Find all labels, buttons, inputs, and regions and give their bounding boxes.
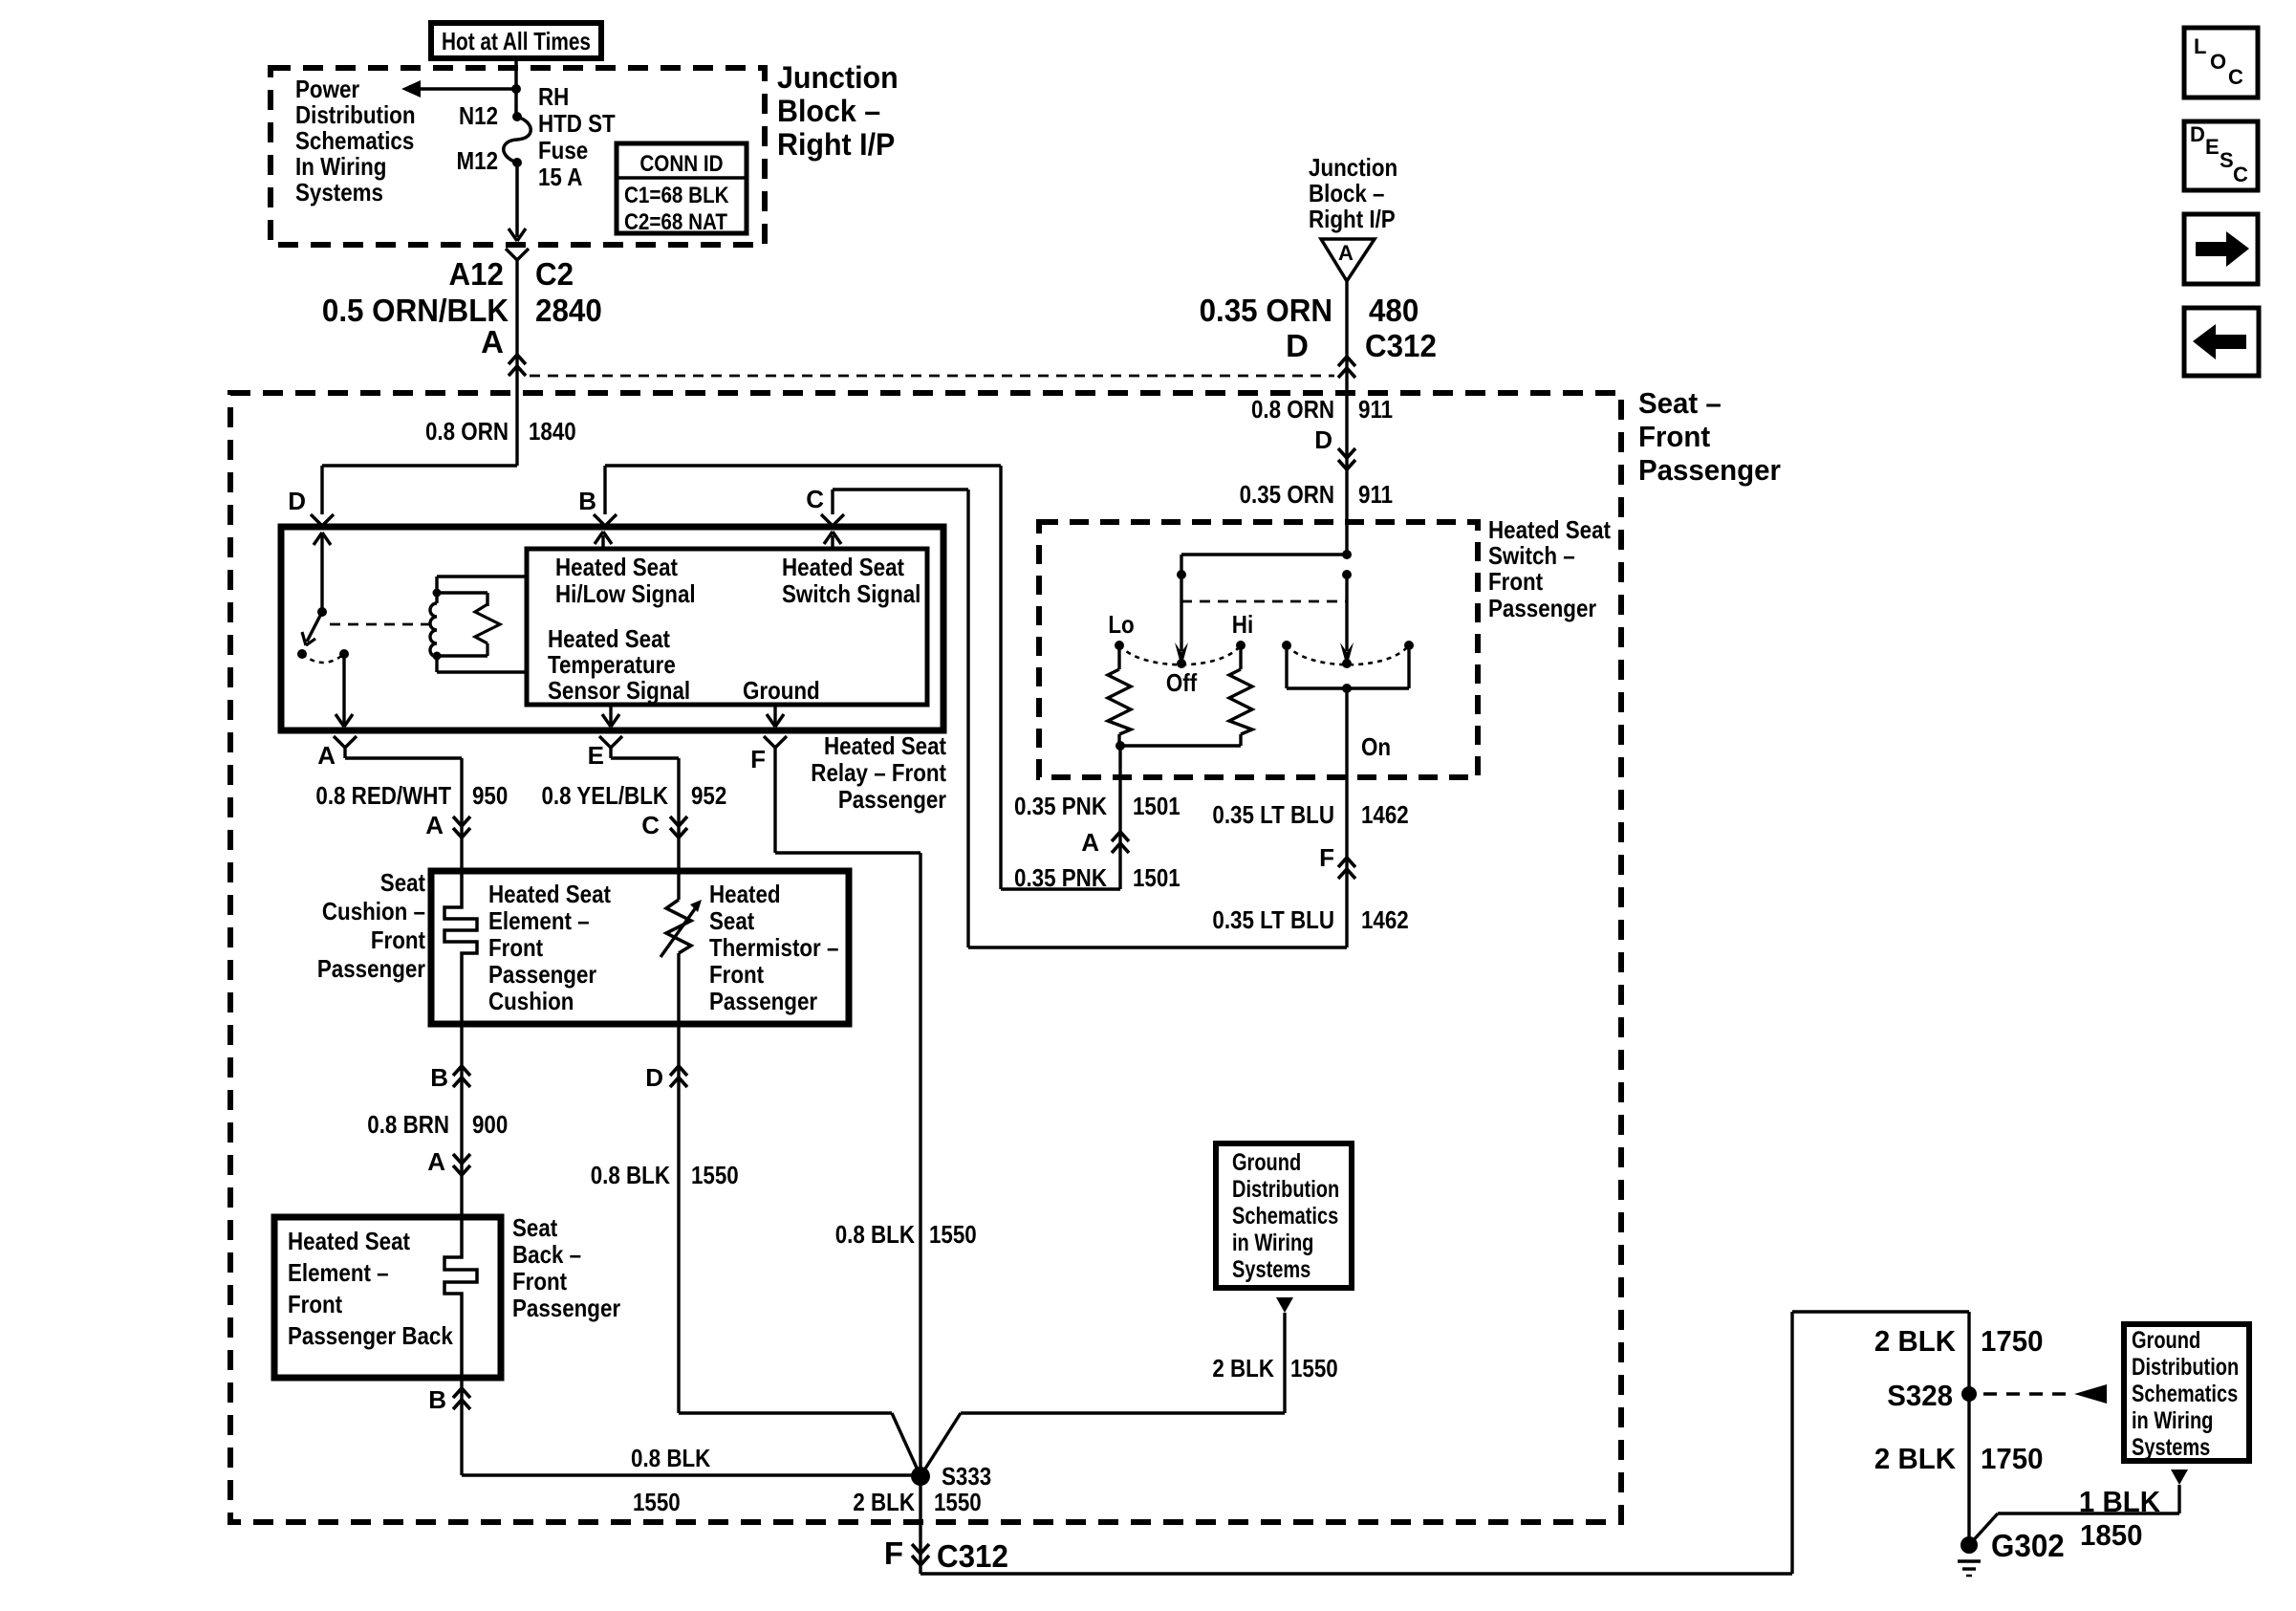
relay pin F female Y — [764, 736, 787, 758]
svg-text:Passenger: Passenger — [1488, 594, 1596, 622]
svg-text:Front: Front — [1488, 567, 1543, 596]
svg-text:Relay – Front: Relay – Front — [811, 758, 946, 787]
svg-text:In Wiring: In Wiring — [295, 152, 386, 181]
svg-text:Switch Signal: Switch Signal — [782, 579, 921, 608]
relay text Heated Seat Hi/Low Signal — [555, 553, 696, 608]
svg-text:Element –: Element – — [288, 1258, 389, 1287]
svg-text:Ground: Ground — [743, 676, 820, 705]
wire label 0.8 ORN / 1840 — [425, 417, 576, 446]
wire label 0.35 LT BLU / 1462 (upper) — [1212, 800, 1408, 829]
svg-text:D: D — [645, 1063, 663, 1092]
wire label 2 BLK / 1750 (lower) — [1874, 1442, 2044, 1475]
switch contact dot Lo — [1115, 641, 1124, 650]
svg-text:Seat: Seat — [512, 1213, 557, 1242]
relay pin F internal arrow — [767, 705, 784, 727]
svg-text:Distribution: Distribution — [295, 100, 416, 129]
wire label 0.35 LT BLU / 1462 (lower) — [1212, 905, 1408, 934]
svg-text:Heated Seat: Heated Seat — [488, 880, 611, 908]
svg-text:0.8 BLK: 0.8 BLK — [631, 1444, 710, 1472]
svg-text:in Wiring: in Wiring — [1232, 1230, 1313, 1256]
relay pin B female Y and label — [578, 487, 617, 526]
in-line connector pin A double chevron (RED/WHT) — [425, 811, 470, 839]
svg-text:C: C — [641, 811, 660, 839]
svg-text:1840: 1840 — [529, 417, 576, 446]
svg-text:C312: C312 — [1365, 328, 1437, 363]
svg-text:C2: C2 — [535, 256, 574, 292]
svg-text:0.8 ORN: 0.8 ORN — [1251, 395, 1334, 424]
relay coil parallel resistor — [437, 593, 500, 656]
text Ground Distribution Schematics in Wiring Systems (middle box) — [1232, 1149, 1339, 1283]
svg-text:0.35 LT BLU: 0.35 LT BLU — [1212, 800, 1334, 829]
wire C2 to C312 (vertical, 0.5 ORN/BLK 2840) — [515, 266, 518, 466]
svg-text:Ground: Ground — [2132, 1327, 2200, 1354]
wire label 0.8 BLK / 1550 (back element) — [631, 1444, 710, 1516]
svg-text:Distribution: Distribution — [2132, 1354, 2239, 1381]
svg-text:E: E — [2205, 135, 2220, 159]
wire PNK return to relay pin B — [605, 466, 1120, 889]
wire cushion element to back element (0.8 BRN 900) — [460, 1024, 463, 1217]
wire label 0.35 ORN / 911 — [1240, 480, 1394, 509]
ground G302 — [1958, 1528, 2065, 1576]
svg-text:A: A — [1338, 241, 1354, 265]
svg-text:Temperature: Temperature — [548, 650, 676, 679]
in-line connector pin F double chevron (LT BLU) — [1319, 843, 1355, 879]
heating element symbol (back) — [444, 1217, 477, 1378]
svg-text:RH: RH — [538, 82, 569, 111]
svg-text:D: D — [2190, 122, 2205, 146]
svg-text:0.8 RED/WHT: 0.8 RED/WHT — [315, 781, 451, 810]
fuse terminal labels N12 M12 — [457, 101, 499, 175]
svg-text:Right I/P: Right I/P — [777, 127, 895, 162]
wire LT BLU return to relay pin C — [833, 490, 1347, 947]
relay pin B internal arrow — [595, 532, 612, 549]
relay pin C female Y and label — [806, 485, 844, 526]
label Heated Seat Relay - Front Passenger — [811, 731, 946, 814]
svg-text:B: B — [428, 1385, 446, 1414]
svg-text:Back –: Back – — [512, 1240, 581, 1269]
svg-text:B: B — [430, 1063, 448, 1092]
in-line connector C312 pin F double chevron — [884, 1535, 1008, 1574]
svg-text:Systems: Systems — [1232, 1256, 1310, 1283]
svg-text:0.8 BLK: 0.8 BLK — [835, 1220, 915, 1249]
svg-text:Passenger: Passenger — [838, 785, 946, 814]
in-line connector double chevron (ORN 911) — [1338, 448, 1355, 469]
label Off — [1166, 668, 1198, 697]
svg-text:in Wiring: in Wiring — [2132, 1407, 2213, 1434]
arrow to power distribution (left) with junction dot — [401, 80, 521, 98]
text Heated Seat Element - Front Passenger Back — [288, 1227, 453, 1350]
svg-text:0.35 ORN: 0.35 ORN — [1200, 293, 1332, 328]
svg-text:A12: A12 — [449, 256, 505, 292]
svg-text:A: A — [427, 1147, 445, 1176]
switch contact dot Hi — [1236, 641, 1245, 650]
svg-text:Front: Front — [288, 1290, 342, 1318]
svg-text:1550: 1550 — [1290, 1354, 1338, 1382]
svg-text:Hot at All Times: Hot at All Times — [442, 27, 591, 55]
svg-text:1750: 1750 — [1981, 1442, 2044, 1475]
heating element symbol (cushion) — [444, 871, 477, 1024]
svg-text:Passenger: Passenger — [512, 1294, 620, 1322]
in-line connector pin A double chevron (BRN) — [427, 1147, 470, 1176]
svg-text:1 BLK: 1 BLK — [2079, 1485, 2161, 1518]
label Hi — [1232, 610, 1253, 639]
wire from triangle A down (0.35 ORN 480) — [1345, 281, 1348, 555]
svg-text:S328: S328 — [1887, 1379, 1953, 1412]
svg-text:S: S — [2220, 148, 2234, 172]
svg-text:Heated Seat: Heated Seat — [548, 624, 670, 653]
CONN ID table (C1=68 BLK, C2=68 NAT) — [617, 143, 747, 235]
resistor Hi (switch indicator) — [1229, 645, 1252, 746]
label Seat Cushion - Front Passenger — [317, 868, 425, 983]
resistor Lo (switch indicator) — [1108, 645, 1131, 746]
svg-text:Passenger: Passenger — [317, 954, 425, 983]
relay switch arm blade with arrowhead — [302, 612, 322, 645]
svg-text:M12: M12 — [457, 146, 499, 175]
splice S328 — [1887, 1379, 1977, 1412]
svg-text:D: D — [288, 487, 306, 515]
svg-text:480: 480 — [1369, 293, 1419, 328]
svg-text:A: A — [1081, 828, 1099, 857]
svg-text:A: A — [425, 811, 444, 839]
heated seat relay inner box — [527, 549, 927, 705]
label S333 / 1550 / 2 BLK — [853, 1462, 991, 1516]
svg-text:Power: Power — [295, 75, 359, 103]
relay switch arm vertical with up arrow — [314, 533, 331, 617]
svg-text:Heated Seat: Heated Seat — [782, 553, 904, 581]
wire label 0.5 ORN/BLK / 2840 — [322, 293, 602, 328]
wire label 0.35 ORN / 480 — [1200, 293, 1419, 328]
svg-text:Block –: Block – — [1309, 179, 1385, 207]
connector C2 pin female Y below junction block — [506, 249, 529, 266]
svg-text:1550: 1550 — [633, 1488, 681, 1516]
svg-text:Passenger: Passenger — [1638, 453, 1781, 487]
wire 2 BLK 1550 from ground box to S333 — [921, 1313, 1285, 1476]
in-line connector C312 pin D double chevron — [1338, 357, 1355, 378]
On switch contact stubs and bar — [1287, 645, 1409, 693]
svg-text:Seat: Seat — [380, 868, 425, 897]
svg-text:Junction: Junction — [1309, 153, 1397, 182]
svg-text:1501: 1501 — [1133, 792, 1180, 820]
svg-text:N12: N12 — [459, 101, 498, 130]
svg-text:1550: 1550 — [691, 1161, 739, 1189]
svg-text:Right I/P: Right I/P — [1309, 205, 1396, 233]
relay pin D female Y and label — [288, 487, 334, 526]
button next (right arrow) — [2184, 214, 2258, 284]
svg-text:Passenger Back: Passenger Back — [288, 1321, 453, 1350]
fuse RH HTD ST 15A (terminals N12/M12) — [504, 112, 531, 167]
wire 1 BLK 1850 from right ground box to G302 — [1969, 1485, 2179, 1545]
svg-text:Heated Seat: Heated Seat — [555, 553, 678, 581]
svg-text:S333: S333 — [942, 1462, 991, 1491]
svg-text:Front: Front — [371, 925, 425, 954]
On switch contact dots and dashed arc — [1282, 641, 1414, 664]
svg-text:900: 900 — [472, 1110, 508, 1139]
svg-text:1550: 1550 — [934, 1488, 982, 1516]
text Ground Distribution Schematics in Wiring Systems (right box) — [2132, 1327, 2239, 1461]
seat - front passenger dashed box — [230, 393, 1621, 1522]
wire label 0.8 ORN / 911 — [1251, 395, 1393, 424]
relay coil link dashed line — [330, 623, 432, 626]
power feed label box 'Hot at All Times' — [431, 23, 601, 58]
svg-text:Distribution: Distribution — [1232, 1176, 1339, 1203]
ground distribution schematics box (middle) — [1216, 1143, 1352, 1288]
text Heated Seat Element - Front Passenger Cushion — [488, 880, 611, 1015]
relay output wire to pin A with down arrow — [336, 654, 353, 727]
relay text Heated Seat Switch Signal — [782, 553, 921, 608]
connector pin B chevron below back box — [428, 1385, 470, 1414]
wire label 2 BLK / 1550 (ground box) — [1212, 1354, 1337, 1382]
svg-text:952: 952 — [691, 781, 726, 810]
wire label 2 BLK / 1750 (upper) — [1874, 1324, 2044, 1358]
svg-text:Cushion: Cushion — [488, 987, 574, 1015]
svg-text:E: E — [588, 741, 604, 770]
relay pin C internal arrow — [824, 532, 841, 549]
wire label 0.8 YEL/BLK / 952 — [542, 781, 727, 810]
svg-text:Thermistor –: Thermistor – — [709, 933, 838, 962]
svg-text:Heated Seat: Heated Seat — [1488, 515, 1611, 544]
heated seat relay outer box — [281, 527, 943, 730]
svg-text:0.5 ORN/BLK: 0.5 ORN/BLK — [322, 293, 509, 328]
label Heated Seat Switch - Front Passenger — [1488, 515, 1611, 622]
svg-text:A: A — [317, 741, 336, 770]
seat cushion heated element box — [431, 871, 849, 1024]
svg-text:B: B — [578, 487, 596, 515]
svg-text:Schematics: Schematics — [1232, 1203, 1338, 1230]
svg-text:2840: 2840 — [535, 293, 602, 328]
wire relay pin F (ground) down to S333 — [775, 758, 921, 1471]
svg-text:Element –: Element – — [488, 906, 590, 935]
relay pin A female Y — [334, 736, 357, 758]
wire label 0.35 PNK / 1501 (lower) — [1014, 863, 1180, 892]
button previous (left arrow) — [2184, 308, 2259, 376]
svg-text:15 A: 15 A — [538, 163, 583, 191]
svg-text:Off: Off — [1166, 668, 1198, 697]
wire label A (pin of C312) — [481, 324, 504, 359]
svg-text:C2=68 NAT: C2=68 NAT — [624, 209, 727, 235]
svg-text:Schematics: Schematics — [2132, 1381, 2238, 1407]
svg-text:0.8 BRN: 0.8 BRN — [367, 1110, 449, 1139]
wire label 0.35 PNK / 1501 (upper) — [1014, 792, 1180, 820]
connector pin label D — [1314, 425, 1332, 454]
wire C312 F to S328/G302 (2 BLK 1750) — [921, 1312, 1969, 1574]
svg-text:F: F — [1319, 843, 1334, 872]
svg-text:Front: Front — [709, 960, 764, 989]
wire label 0.8 RED/WHT / 950 — [315, 781, 508, 810]
svg-text:G302: G302 — [1991, 1528, 2065, 1563]
svg-text:Front: Front — [512, 1267, 567, 1295]
svg-text:2 BLK: 2 BLK — [853, 1488, 915, 1516]
wire relay pin A to seat cushion element — [345, 758, 462, 871]
wire thermistor return 0.8 BLK 1550 — [679, 1024, 921, 1476]
svg-text:F: F — [750, 745, 766, 773]
relay switch dashed arc — [302, 654, 344, 663]
label Seat Back - Front Passenger — [512, 1213, 620, 1322]
switch wiper dashed arc Lo-Off-Hi — [1119, 645, 1241, 664]
wire from Hot at All Times into fuse — [514, 55, 518, 117]
svg-text:Systems: Systems — [295, 178, 383, 207]
svg-text:F: F — [884, 1535, 903, 1571]
svg-text:Ground: Ground — [1232, 1149, 1301, 1176]
switch feed junction dot upper — [1342, 550, 1352, 559]
relay pin E female Y — [599, 736, 622, 758]
svg-text:Junction: Junction — [777, 60, 899, 95]
svg-text:C1=68 BLK: C1=68 BLK — [624, 183, 729, 208]
svg-text:O: O — [2210, 50, 2226, 74]
label Junction Block - Right I/P (top left) — [777, 60, 899, 162]
label Seat - Front Passenger — [1638, 386, 1781, 487]
svg-text:C: C — [806, 485, 824, 513]
svg-text:950: 950 — [472, 781, 508, 810]
wire fuse output with arrow into junction block edge — [509, 163, 526, 241]
svg-text:CONN ID: CONN ID — [639, 151, 723, 177]
svg-text:Fuse: Fuse — [538, 136, 588, 164]
wire S333 down to C312 pin F — [919, 1476, 921, 1574]
svg-text:Sensor Signal: Sensor Signal — [548, 676, 690, 705]
svg-text:911: 911 — [1358, 480, 1393, 509]
svg-text:Heated Seat: Heated Seat — [824, 731, 946, 760]
thermistor symbol — [661, 871, 702, 1024]
svg-text:0.8 BLK: 0.8 BLK — [591, 1161, 670, 1189]
connector pin B chevron below cushion box — [430, 1063, 470, 1092]
svg-text:0.8 ORN: 0.8 ORN — [425, 417, 509, 446]
in-line connector C312 pin A double chevron — [509, 355, 526, 376]
Off pole arrow (wiper) — [1175, 642, 1188, 668]
wire label D / C312 — [1286, 328, 1437, 363]
svg-text:Seat: Seat — [709, 906, 754, 935]
svg-text:0.8 YEL/BLK: 0.8 YEL/BLK — [542, 781, 669, 810]
svg-text:C: C — [2233, 163, 2248, 186]
svg-text:0.35 ORN: 0.35 ORN — [1240, 480, 1334, 509]
svg-text:Front: Front — [488, 933, 543, 962]
svg-text:1850: 1850 — [2080, 1518, 2143, 1552]
splice S333 — [911, 1467, 930, 1486]
svg-text:Schematics: Schematics — [295, 126, 414, 155]
wire label 0.8 BRN / 900 — [367, 1110, 508, 1139]
wire label 0.8 BLK / 1550 (relay ground) — [835, 1220, 977, 1249]
seat back heated element box — [274, 1217, 501, 1378]
switch feed junction dot lower — [1342, 570, 1352, 579]
svg-text:Seat –: Seat – — [1638, 386, 1722, 420]
svg-text:2 BLK: 2 BLK — [1874, 1324, 1957, 1358]
relay text Ground — [743, 676, 820, 705]
svg-text:2 BLK: 2 BLK — [1212, 1354, 1274, 1382]
switch feed branch wire to Off pole — [1181, 555, 1347, 651]
wire 0.35 PNK 1501 from Lo resistor down — [1118, 746, 1121, 889]
On pole arrow (wiper) on main wire — [1340, 575, 1354, 668]
dashed reference wire from S328 with arrow — [1983, 1384, 2107, 1404]
svg-text:C312: C312 — [937, 1538, 1008, 1574]
wire label 1 BLK / 1850 — [2079, 1485, 2161, 1552]
svg-text:Block –: Block – — [777, 94, 880, 128]
in-line connector pin A double chevron (PNK) — [1081, 828, 1129, 857]
svg-text:Heated Seat: Heated Seat — [288, 1227, 410, 1255]
svg-text:On: On — [1361, 732, 1391, 761]
svg-text:0.35 LT BLU: 0.35 LT BLU — [1212, 905, 1334, 934]
arrow from middle ground box — [1276, 1297, 1293, 1313]
text Heated Seat Thermistor - Front Passenger — [709, 880, 838, 1015]
svg-text:0.35 PNK: 0.35 PNK — [1014, 792, 1107, 820]
in-line connector C312 dashed line — [530, 375, 1334, 378]
fuse name text RH HTD ST Fuse 15 A — [538, 82, 616, 191]
junction block triangle connector A — [1321, 239, 1375, 281]
wire relay pin E to thermistor — [611, 758, 679, 871]
heated seat switch dashed box — [1039, 522, 1478, 777]
arrow from right ground box — [2171, 1469, 2188, 1485]
svg-text:2 BLK: 2 BLK — [1874, 1442, 1957, 1475]
svg-text:Passenger: Passenger — [488, 960, 596, 989]
svg-text:Lo: Lo — [1108, 610, 1134, 639]
svg-text:Switch –: Switch – — [1488, 541, 1575, 570]
svg-text:Passenger: Passenger — [709, 987, 817, 1015]
relay text Heated Seat Temperature Sensor Signal — [548, 624, 690, 705]
svg-text:1462: 1462 — [1361, 905, 1409, 934]
label Lo — [1108, 610, 1134, 639]
svg-text:1550: 1550 — [929, 1220, 977, 1249]
button DESC — [2184, 121, 2258, 190]
svg-text:L: L — [2194, 34, 2206, 58]
svg-text:Cushion –: Cushion – — [322, 897, 425, 925]
connector pin D chevron below cushion box — [645, 1063, 687, 1092]
svg-text:Systems: Systems — [2132, 1434, 2210, 1461]
in-line connector pin C double chevron (YEL/BLK) — [641, 811, 687, 839]
wire label A12 / C2 — [449, 256, 574, 292]
svg-text:C: C — [2228, 65, 2243, 89]
relay coil — [430, 577, 527, 672]
label Junction Block - Right I/P (above triangle) — [1309, 153, 1397, 233]
svg-text:A: A — [481, 324, 504, 359]
svg-text:D: D — [1314, 425, 1332, 454]
relay switch contact dots — [297, 649, 349, 659]
reference text Power Distribution Schematics In Wiring Systems — [295, 75, 416, 207]
svg-text:1462: 1462 — [1361, 800, 1409, 829]
junction dot on Off branch — [1177, 570, 1186, 579]
svg-text:Front: Front — [1638, 420, 1710, 453]
svg-text:HTD ST: HTD ST — [538, 109, 616, 138]
svg-text:Hi/Low Signal: Hi/Low Signal — [555, 579, 696, 608]
svg-text:1501: 1501 — [1133, 863, 1180, 892]
relay pin labels A E F below box — [317, 741, 766, 773]
svg-text:Heated: Heated — [709, 880, 781, 908]
junction block - right I/P dashed box — [271, 68, 765, 245]
relay pin E internal arrow — [602, 705, 619, 727]
svg-text:911: 911 — [1358, 395, 1393, 424]
wire 0.8 ORN 1840 to relay pin D — [322, 466, 517, 514]
svg-text:Hi: Hi — [1232, 610, 1253, 639]
button LOC — [2184, 28, 2258, 98]
svg-text:1750: 1750 — [1981, 1324, 2044, 1358]
svg-text:D: D — [1286, 328, 1309, 363]
label On — [1361, 732, 1391, 761]
wire back element to S333 (0.8 BLK 1550) — [462, 1378, 921, 1475]
junction dot below Lo resistor — [1116, 741, 1241, 751]
ground distribution schematics box (right) — [2124, 1324, 2249, 1461]
wire On output down through switch box — [1345, 688, 1348, 947]
switch mechanical link dashed line — [1181, 600, 1347, 603]
wire label 0.8 BLK / 1550 (thermistor) — [591, 1161, 739, 1189]
